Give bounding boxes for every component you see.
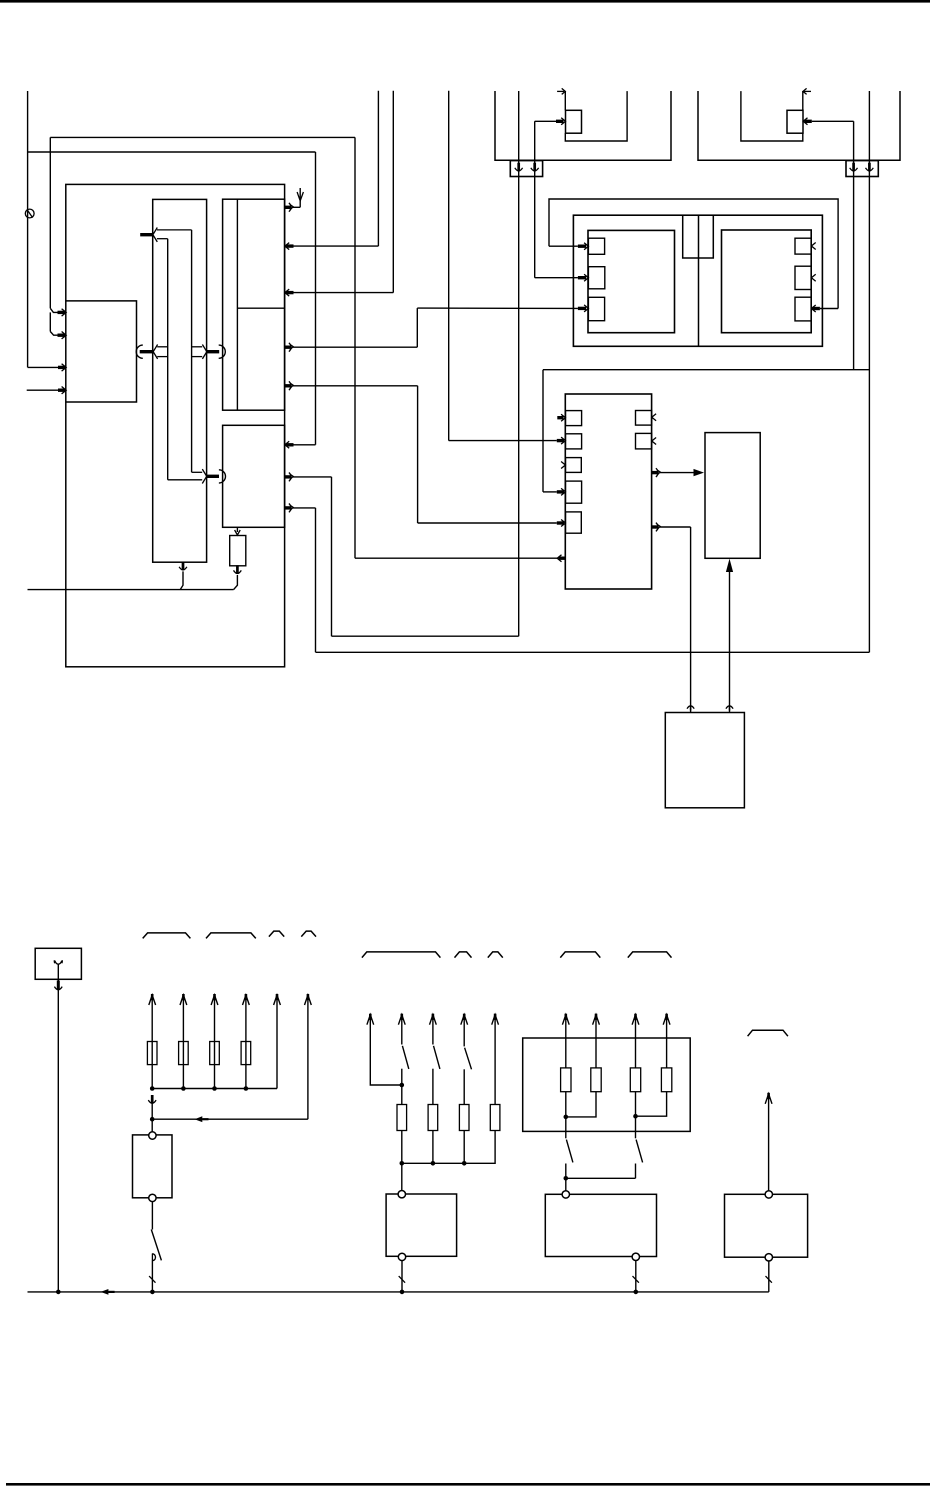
fuse group1 wire 1 with up arrow (149, 995, 156, 1005)
battery box (35, 948, 81, 979)
junction dots on fuse bus (181, 1086, 186, 1091)
wire up arrow m5 (492, 1015, 499, 1025)
ignition switch sw2 with up arrow (398, 1015, 405, 1025)
S2 wire to ground bus with tick (401, 1261, 403, 1292)
wire y137 descender to gauge module (354, 137, 356, 558)
wire to ground bus with tick (151, 1261, 153, 1292)
box M inner wire y308 (237, 307, 284, 309)
connector brace B4 (301, 931, 316, 937)
module pin box p5 (566, 512, 582, 533)
fuse block F1 (561, 1068, 571, 1092)
wire from 534 vertical into fuse F1 (535, 120, 556, 122)
wire into cluster pin p1L (549, 245, 578, 247)
wire branch down to L1 pins (49, 137, 51, 308)
cluster bridge connector (683, 215, 714, 258)
connector brace B6 (455, 952, 472, 958)
join wire y1178 (566, 1177, 636, 1179)
gauge unit left box (588, 230, 675, 332)
switch blade pair 2 (635, 1116, 637, 1138)
node circle with slash on wire A (25, 209, 34, 218)
switch contact hook (152, 1254, 155, 1261)
top junction block box 2 (698, 91, 900, 160)
sub-box N fuel gauge (223, 425, 285, 527)
fuse pair 2 join wire (636, 1092, 667, 1117)
fuse bus2 wire y1163 (401, 1131, 403, 1191)
wire vertical 853 to net y370 (853, 121, 855, 369)
S4 wire to ground bus with tick (768, 1261, 770, 1292)
page bottom border line (6, 1483, 930, 1486)
meter pin out y477 wire via 331 to 518 vertical (285, 475, 291, 478)
sensor box G (665, 713, 744, 808)
ground bus left arrow (101, 1289, 109, 1295)
ignition switch sw4 with up arrow (461, 1015, 468, 1025)
pin box p1R (795, 238, 811, 254)
gauge control module box (565, 394, 651, 589)
page top border bar (0, 0, 930, 3)
fuse block wire 2 with up arrow (593, 1015, 600, 1025)
fuse F2 feed stub arrow (804, 90, 811, 92)
pin box p1L (588, 238, 604, 254)
S4 terminal circles (765, 1191, 772, 1198)
wire a6 into meter (27, 389, 59, 391)
battery wire thick segment with down arrow (57, 981, 60, 991)
wire up arrow right with vertical to S4 (765, 1094, 772, 1104)
fuse group1 F3 (210, 1042, 220, 1065)
left fuse bus wire (152, 1088, 277, 1090)
pin box p2R (795, 266, 811, 289)
fuse block box (523, 1038, 691, 1131)
fuse F1 wire and box (564, 91, 566, 110)
combination meter outer box (66, 184, 285, 666)
fuse m5 (490, 1105, 500, 1131)
cluster inner box (573, 215, 822, 346)
wire battery feed vertical A (27, 91, 29, 367)
fuse m4 (459, 1105, 469, 1131)
wire from box G up to box R (729, 571, 731, 713)
wire A into meter pin a5 (28, 366, 59, 368)
wire y152 descender (315, 152, 317, 445)
pin box p3R (795, 297, 811, 321)
shielded pair symbol A2 at box T right (192, 346, 203, 348)
arrow down into pin y207 wire (297, 192, 303, 201)
connector brace B5 (362, 952, 441, 958)
connector brace B3 (269, 931, 284, 937)
wire inner vertical 191 of box T (191, 230, 193, 472)
fuse m3 (428, 1105, 438, 1131)
wire net y152 from A (28, 151, 316, 153)
fuse F2 wire and box (802, 91, 804, 110)
fuse group1 F1 (147, 1042, 157, 1065)
wire into gauge module pin p6 (355, 557, 558, 559)
wire from 448 vertical into p2 (448, 91, 450, 441)
relay feed wire y1119 with left arrow (152, 1118, 308, 1120)
relay box lower-left (133, 1135, 173, 1198)
meter pin out y508 wire via 315 to connector c2 (285, 506, 291, 509)
hook arrow at box G pin 2 (729, 706, 731, 711)
wire from box T bottom to ground bus (182, 562, 185, 571)
connector C2 under box2 (846, 161, 878, 177)
wire up arrow 5 from fuse bus corner (274, 995, 281, 1005)
arrow mark at p1R (811, 243, 815, 250)
meter ground bus wire y589 (28, 589, 234, 591)
wire descender 543 into module pin p4 (542, 370, 544, 492)
connector brace B7 (488, 952, 503, 958)
ignition switch sw3 with up arrow (430, 1015, 437, 1025)
module pin box q1 with arrow mark (636, 411, 652, 426)
module pin box p2 (566, 434, 582, 449)
twisted pair connector arrow A4 into box T (140, 233, 152, 236)
wire elbow arrow into L1 pin a3 (50, 308, 58, 312)
wire net y370 horizontal (543, 369, 869, 371)
meter pin out y386 wire to module pin p5 (285, 384, 291, 387)
battery terminal fork glyph (55, 961, 62, 965)
S2 terminal circles (398, 1191, 405, 1198)
fuse group1 F4 (241, 1042, 251, 1065)
cluster center divider (698, 215, 700, 346)
hook arrow at box G pin 1 (690, 706, 692, 711)
display box R (705, 433, 760, 559)
connector brace B8 (560, 952, 600, 958)
fuse pair 1 join wire (566, 1092, 596, 1117)
fuse F1 feed stub arrow (557, 90, 564, 92)
S3 wire to ground bus with tick (635, 1261, 637, 1292)
fuse m2 (397, 1105, 407, 1131)
module pin box p3 with arrow mark (566, 458, 582, 473)
wire inner vertical 167 of box T (167, 239, 169, 480)
fuse group1 wire 3 with up arrow (211, 995, 218, 1005)
shielded pair symbol A1 at box T left (136, 345, 143, 358)
connector brace B10 (748, 1030, 788, 1036)
switch box S4 (725, 1194, 808, 1257)
wire up arrow 6 to relay feed (305, 995, 312, 1005)
module output wire to display box R (652, 471, 658, 474)
meter pin out y347 wire to cluster pin (285, 346, 291, 349)
switch blade below relay (151, 1202, 153, 1230)
fuse block F2 (591, 1068, 601, 1092)
module pin box p4 (566, 481, 582, 503)
wire from resistor R to ground bus (236, 565, 239, 574)
wire net y137 horizontal (50, 136, 355, 138)
switch blade pair 1 (565, 1117, 567, 1138)
module output wire y527 down to box G (652, 525, 658, 528)
wire from 534 into cluster pin p2L (535, 277, 578, 279)
wire segment to L1 pin a4 (49, 312, 51, 331)
sub-unit box L1 in meter (66, 301, 137, 402)
box M inner divider vertical (236, 199, 238, 410)
shielded pair symbol A3 into box N (192, 471, 203, 473)
ground bus junction dots (56, 1290, 61, 1295)
connector brace B9 (628, 952, 672, 958)
S3 terminal circles (562, 1191, 569, 1198)
resistor R below box N (236, 527, 238, 532)
arrow mark at p2R (811, 274, 815, 281)
wire from 853 vertical into fuse F2 (812, 120, 854, 122)
connector brace B1 (143, 933, 191, 939)
wire from fuse bus down to relay (151, 1095, 154, 1104)
wire vertical 869 from box2 to net y652 (868, 91, 870, 652)
fuse block wire 3 with up arrow (632, 1015, 639, 1025)
connector C1 under box1 (510, 161, 542, 177)
pin box p2L (588, 267, 604, 289)
connector brace B2 (206, 933, 256, 939)
wire vertical 518 from box1 (518, 91, 520, 636)
switch box S3 (545, 1194, 656, 1256)
fuse block F4 (661, 1068, 671, 1092)
switch box S2 (386, 1194, 457, 1256)
fuse group1 wire 2 with up arrow (180, 995, 187, 1005)
wire from vertical 393 into meter pin y291 (392, 91, 394, 293)
top junction block box 1 (495, 91, 671, 160)
fuse group1 wire 4 with up arrow (243, 995, 250, 1005)
meter pin out y207 with up stub (285, 206, 291, 209)
solid arrow up into box R (726, 559, 733, 572)
main ground bus wire (28, 1291, 769, 1293)
fuse block wire 4 with up arrow (663, 1015, 670, 1025)
fuse block F3 (630, 1068, 640, 1092)
cluster outer wire loop (549, 199, 838, 309)
speedometer sub-box T (153, 199, 207, 562)
wire up arrow m1 (367, 1015, 374, 1025)
module pin box p1 with stub arrow (566, 411, 582, 426)
fuse group1 F2 (179, 1042, 189, 1065)
pin box p3L (588, 297, 604, 320)
wire into cluster pin p3R (820, 308, 838, 310)
battery ground wire (57, 964, 59, 1292)
fuse block wire 1 with up arrow (562, 1015, 569, 1025)
relay terminal circles (149, 1132, 156, 1139)
wire from vertical 378 into meter pin y246 (377, 91, 379, 246)
module pin box q2 with arrow mark (636, 433, 652, 449)
wire arrow into speedometer box pin (294, 444, 316, 446)
gauge unit right box (722, 230, 812, 333)
tachometer sub-box M (223, 199, 285, 410)
wire vertical 534 from fuse F1 wire (534, 121, 536, 277)
